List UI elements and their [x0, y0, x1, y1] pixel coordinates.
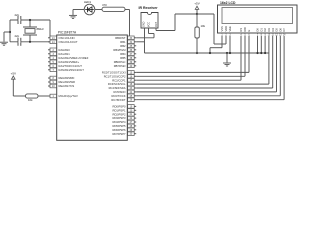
- svg-text:D7: D7: [282, 28, 286, 32]
- svg-text:RA5/AN4/SS/C2OUT: RA5/AN4/SS/C2OUT: [59, 68, 85, 72]
- pin 9 RE1/AN6/WR: [48, 80, 75, 84]
- svg-text:8MHz: 8MHz: [37, 27, 45, 31]
- svg-text:+5V: +5V: [194, 1, 199, 5]
- svg-text:RC7/RX/DT: RC7/RX/DT: [111, 98, 126, 102]
- wire R2 to ground rail: [196, 38, 198, 54]
- svg-text:RD0/PSP0: RD0/PSP0: [113, 104, 127, 108]
- wire LCD RW to RC1: [136, 40, 245, 76]
- wire LCD E to RC0: [136, 40, 249, 72]
- pin 38 RB5: [120, 56, 136, 60]
- pin 39 RB6/PGC: [114, 60, 137, 64]
- wire LCD VDD to +5V: [214, 14, 226, 44]
- svg-text:D6: D6: [278, 28, 282, 32]
- svg-text:RB3/PGM: RB3/PGM: [113, 48, 126, 52]
- pin 16 RC1/T1OSI/CCP2: [104, 74, 137, 78]
- svg-text:RE2/AN7/CS: RE2/AN7/CS: [59, 84, 75, 88]
- pin 8 RE0/AN5/RD: [48, 76, 74, 80]
- capacitor C1 22p: [15, 13, 21, 24]
- svg-text:GND: GND: [143, 21, 146, 27]
- svg-text:RS: RS: [239, 28, 243, 32]
- power +5V (top): [194, 1, 199, 14]
- pin 6 RA4/T0CKI/C1OUT: [48, 64, 82, 68]
- wire LCD D4 to RC4: [136, 40, 273, 88]
- svg-text:RB2: RB2: [120, 44, 126, 48]
- wire bottom oscillator rail: [10, 41, 57, 43]
- svg-text:RB1: RB1: [120, 40, 126, 44]
- svg-text:10k: 10k: [201, 24, 206, 28]
- svg-text:RC1/T1OSI/CCP2: RC1/T1OSI/CCP2: [104, 74, 126, 78]
- svg-text:E: E: [247, 30, 251, 32]
- svg-text:RB6/PGC: RB6/PGC: [114, 60, 126, 64]
- svg-text:RD4/PSP4: RD4/PSP4: [113, 120, 127, 124]
- svg-text:RC6/TX/CK: RC6/TX/CK: [111, 94, 125, 98]
- crystal X1 8MHz: [23, 19, 44, 43]
- pin 13 OSC1/CLKIN: [48, 36, 75, 40]
- LCD pin 11 D4: [271, 28, 275, 40]
- LCD pin 14 D7: [282, 28, 286, 40]
- pin 23 RC4/SDI/SDA: [109, 86, 137, 90]
- pin 17 RC2/CCP1: [112, 78, 136, 82]
- svg-text:RD6/PSP6: RD6/PSP6: [113, 128, 127, 132]
- svg-text:OUT: OUT: [155, 21, 158, 27]
- pin 1 MCLR/Vpp/THV: [48, 94, 78, 98]
- PIC16F877A U1 body: [57, 30, 128, 140]
- pin 15 RC0/T1OSO/T1CKI: [102, 70, 136, 74]
- ground (LED): [69, 10, 84, 19]
- svg-text:RC2/CCP1: RC2/CCP1: [112, 78, 126, 82]
- wire IR pin1 to ground rail / RB1: [144, 28, 146, 53]
- svg-text:MCLR/Vpp/THV: MCLR/Vpp/THV: [59, 94, 78, 98]
- svg-text:10k: 10k: [28, 98, 33, 102]
- resistor R1 470: [102, 3, 125, 11]
- svg-text:VEE: VEE: [228, 26, 232, 31]
- svg-text:16x2 LCD: 16x2 LCD: [220, 1, 236, 5]
- wire LCD D2 to ground rail: [264, 40, 266, 54]
- svg-text:+5V: +5V: [11, 71, 16, 75]
- wire LCD VEE to ground rail: [229, 40, 231, 54]
- svg-text:D1: D1: [259, 28, 263, 32]
- power +5V (MCLR): [11, 71, 16, 96]
- wire IR pin2 OUT to RB0/INT: [136, 28, 154, 38]
- svg-text:RB5: RB5: [120, 56, 126, 60]
- pin 35 RB2: [120, 44, 136, 48]
- pin 26 RC7/RX/DT: [111, 98, 136, 102]
- LCD pin 13 D6: [278, 28, 282, 40]
- svg-text:LED1: LED1: [84, 0, 91, 4]
- pin 19 RD0/PSP0: [113, 104, 137, 108]
- LCD pin 3 VEE: [228, 26, 232, 40]
- pin 27 RD4/PSP4: [113, 120, 137, 124]
- svg-text:RD5/PSP5: RD5/PSP5: [113, 124, 127, 128]
- pin 25 RC6/TX/CK: [111, 94, 136, 98]
- wire LCD D0 to ground rail: [256, 40, 258, 54]
- svg-text:IR Receiver: IR Receiver: [139, 6, 159, 10]
- pin 37 RB4: [120, 52, 136, 56]
- LCD pin 9 D2: [263, 28, 267, 40]
- LCD pin 7 D0: [256, 28, 260, 40]
- svg-text:PIC16F877A: PIC16F877A: [58, 30, 77, 34]
- wire RB1 to rail: [136, 41, 144, 43]
- svg-text:470: 470: [102, 3, 107, 7]
- pin 10 RE2/AN7/CS: [48, 84, 74, 88]
- svg-text:RD2/PSP2: RD2/PSP2: [113, 112, 127, 116]
- pin 3 RA1/AN1: [48, 52, 70, 56]
- svg-text:RB7/PGD: RB7/PGD: [114, 64, 126, 68]
- svg-text:22p: 22p: [15, 13, 20, 17]
- svg-text:VSS: VSS: [220, 26, 224, 31]
- svg-text:RA0/AN0: RA0/AN0: [59, 48, 71, 52]
- ground (rail): [223, 52, 231, 66]
- svg-text:RB4: RB4: [120, 52, 126, 56]
- pin 30 RD7/PSP7: [113, 132, 137, 136]
- ground (oscillator): [0, 42, 8, 45]
- svg-text:D5: D5: [275, 28, 279, 32]
- LCD pin 8 D1: [259, 28, 263, 40]
- svg-text:RE0/AN5/RD: RE0/AN5/RD: [59, 76, 75, 80]
- svg-text:D4: D4: [271, 28, 275, 32]
- pin 22 RD3/PSP3: [113, 116, 137, 120]
- wire left rail of caps: [9, 20, 11, 42]
- wire LCD D1 to ground rail: [260, 40, 262, 54]
- svg-text:RC0/T1OSO/T1CKI: RC0/T1OSO/T1CKI: [102, 70, 126, 74]
- LCD pin 2 VDD: [224, 26, 228, 40]
- LCD pin 4 RS: [239, 28, 243, 40]
- wire R1 to RB0 pin box: [125, 10, 130, 37]
- svg-text:RD1/PSP1: RD1/PSP1: [113, 108, 127, 112]
- pin 24 RC5/SDO: [114, 90, 137, 94]
- wire top oscillator rail: [10, 20, 57, 38]
- wire LCD VSS to ground rail: [209, 40, 222, 54]
- svg-text:RA4/T0CKI/C1OUT: RA4/T0CKI/C1OUT: [59, 64, 83, 68]
- wire LCD RS to RC2: [136, 40, 241, 80]
- LED D1: [84, 0, 95, 15]
- LCD pin 1 VSS: [220, 26, 224, 40]
- svg-text:RA1/AN1: RA1/AN1: [59, 52, 71, 56]
- pin 7 RA5/AN4/SS/C2OUT: [48, 68, 84, 72]
- svg-text:RC3/SCK/SCL: RC3/SCK/SCL: [108, 82, 126, 86]
- pin 34 RB1: [120, 40, 136, 44]
- svg-text:VCC: VCC: [148, 22, 151, 27]
- svg-text:OSC1/CLKIN: OSC1/CLKIN: [59, 36, 75, 40]
- LCD pin 6 E: [247, 30, 251, 41]
- LCD pin 10 D3: [267, 28, 271, 40]
- resistor R2 10k (vertical): [195, 24, 206, 38]
- pin 28 RD5/PSP5: [113, 124, 137, 128]
- pin 5 RA3/AN3/VREF+: [48, 60, 80, 64]
- svg-text:D0: D0: [256, 28, 260, 32]
- svg-text:VDD: VDD: [224, 26, 228, 32]
- capacitor C2 22p: [15, 34, 21, 46]
- pin 14 OSC2/CLKOUT: [48, 40, 78, 44]
- pin 33 RB0/INT: [115, 36, 136, 40]
- svg-text:OSC2/CLKOUT: OSC2/CLKOUT: [59, 40, 78, 44]
- wire IR pin3 VCC to +5V: [156, 14, 197, 31]
- pin 4 RA2/AN2/VREF-/CVREF: [48, 56, 89, 60]
- pin 18 RC3/SCK/SCL: [108, 82, 136, 86]
- wire LCD D7 to RC7: [136, 40, 284, 100]
- pin 29 RD6/PSP6: [113, 128, 137, 132]
- pin 20 RD1/PSP1: [113, 108, 137, 112]
- svg-text:RW: RW: [243, 27, 247, 32]
- pin 2 RA0/AN0: [48, 48, 70, 52]
- svg-text:RC4/SDI/SDA: RC4/SDI/SDA: [109, 86, 126, 90]
- wire R3 to MCLR: [38, 95, 48, 97]
- wire LCD D3 to RC3: [136, 40, 269, 84]
- LCD pin 5 RW: [243, 27, 247, 40]
- svg-text:RA3/AN3/VREF+: RA3/AN3/VREF+: [59, 60, 80, 64]
- svg-text:RD3/PSP3: RD3/PSP3: [113, 116, 127, 120]
- svg-text:RE1/AN6/WR: RE1/AN6/WR: [59, 80, 75, 84]
- pin 36 RB3/PGM: [113, 48, 136, 52]
- pin 21 RD2/PSP2: [113, 112, 137, 116]
- IR receiver U2: [139, 6, 159, 28]
- resistor R3 10k: [26, 94, 39, 102]
- node +5V junction: [196, 13, 214, 27]
- LCD pin 12 D5: [275, 28, 279, 40]
- wire ground rail: [145, 52, 270, 54]
- wire LCD D6 to RC6: [136, 40, 280, 96]
- wire LED to R1: [95, 9, 102, 11]
- svg-text:22p: 22p: [15, 34, 20, 38]
- wire LCD D5 to RC5: [136, 40, 276, 92]
- node cap rail to ground: [4, 31, 11, 42]
- svg-text:RA2/AN2/VREF-/CVREF: RA2/AN2/VREF-/CVREF: [59, 56, 89, 60]
- pin 40 RB7/PGD: [114, 64, 137, 68]
- svg-text:RC5/SDO: RC5/SDO: [114, 90, 126, 94]
- svg-text:D2: D2: [263, 28, 267, 32]
- LCD LCD1 16x2: [218, 1, 298, 33]
- svg-text:RB0/INT: RB0/INT: [115, 36, 126, 40]
- svg-text:RD7/PSP7: RD7/PSP7: [113, 132, 127, 136]
- wire +5V to R3: [13, 95, 25, 97]
- svg-text:D3: D3: [267, 28, 271, 32]
